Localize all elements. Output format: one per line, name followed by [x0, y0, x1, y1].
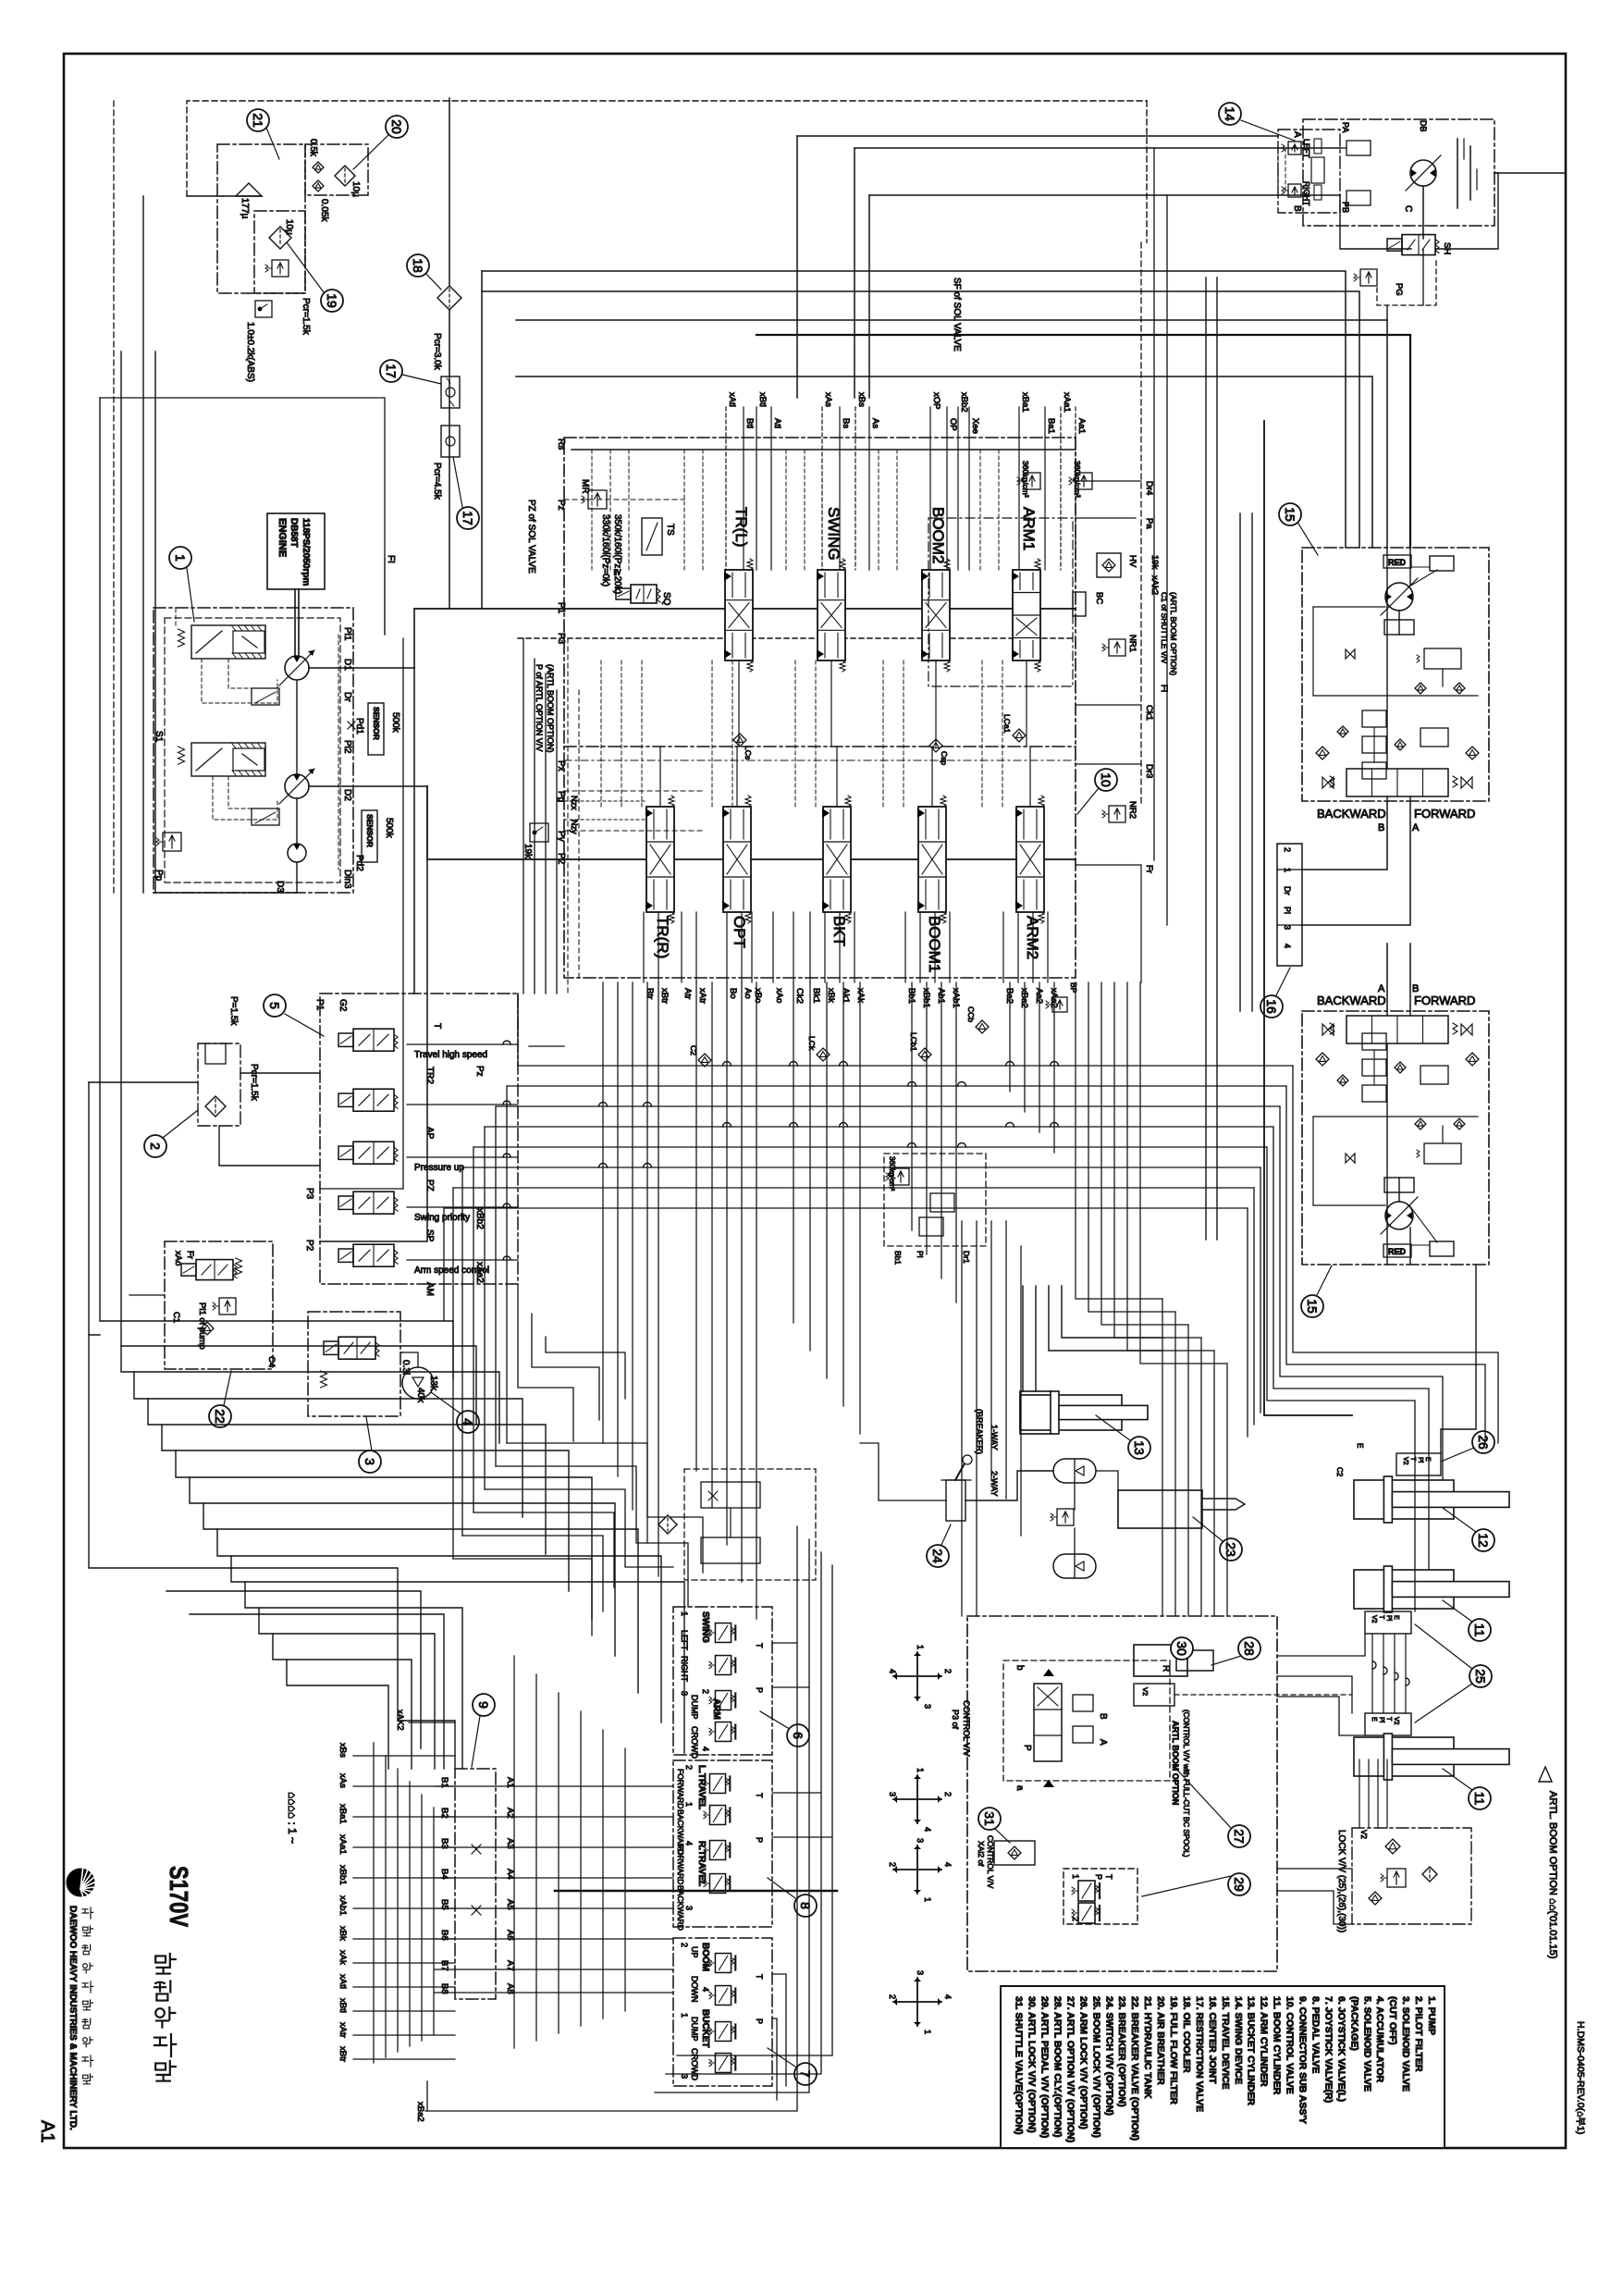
svg-text:T: T — [1104, 1874, 1113, 1880]
svg-text:V2: V2 — [1393, 1717, 1399, 1725]
breaker valve box 22 — [165, 1241, 273, 1369]
sensor 1 — [368, 703, 384, 755]
svg-text:6. JOYSTICK VALVE(L): 6. JOYSTICK VALVE(L) — [1335, 1996, 1346, 2102]
balloon 13 — [1128, 1437, 1150, 1459]
balloon 3 — [359, 1450, 381, 1473]
svg-text:ARM: ARM — [711, 1698, 721, 1720]
svg-text:xBa1: xBa1 — [338, 1804, 348, 1824]
svg-text:P of ARTL OPTION V/V: P of ARTL OPTION V/V — [535, 664, 544, 751]
svg-text:B: B — [1412, 983, 1419, 994]
wire P1 supply left — [413, 609, 415, 668]
balloon 2 — [144, 1135, 166, 1157]
svg-text:21: 21 — [251, 113, 265, 128]
svg-text:xAa1: xAa1 — [338, 1834, 348, 1855]
CV arm1 inner box — [928, 518, 1073, 686]
svg-text:DUMP: DUMP — [690, 2017, 699, 2042]
svg-text:28. ARTL BOOM CLY.(OPTION): 28. ARTL BOOM CLY.(OPTION) — [1051, 1996, 1063, 2137]
LS check LCk — [817, 1048, 830, 1061]
svg-text:2: 2 — [680, 1943, 689, 1947]
svg-text:Bo: Bo — [728, 988, 738, 999]
svg-text:4: 4 — [701, 1987, 710, 1992]
wire travel A B drops — [1386, 305, 1388, 320]
balloon 21 — [247, 109, 269, 131]
svg-text:BP: BP — [1069, 982, 1078, 994]
svg-text:BACKWARD: BACKWARD — [1317, 994, 1386, 1007]
svg-text:11: 11 — [1472, 1623, 1487, 1637]
svg-text:2: 2 — [943, 1792, 953, 1796]
spool ARM2 — [1016, 807, 1044, 912]
svg-text:2: 2 — [943, 1669, 953, 1673]
rail P2 — [427, 858, 1076, 860]
joystick box 6 — [673, 1607, 772, 1755]
wire lock vv risers — [1359, 1759, 1360, 1828]
svg-text:XAi2 of: XAi2 of — [977, 1841, 986, 1867]
svg-text:SENSOR: SENSOR — [372, 707, 381, 740]
svg-text:360kg/cm²: 360kg/cm² — [1021, 461, 1030, 498]
boom cylinder 11a — [1354, 1570, 1454, 1609]
svg-text:8: 8 — [798, 1902, 813, 1909]
NR2 relief — [1102, 806, 1125, 822]
LS check Csp — [929, 739, 942, 752]
svg-text:18: 18 — [411, 258, 425, 273]
check valve 0.05k — [313, 180, 324, 191]
pump 2 rear — [285, 774, 309, 798]
svg-text:2: 2 — [888, 1994, 897, 1999]
shuttle 31 — [994, 1841, 1035, 1865]
svg-text:Bs: Bs — [841, 418, 851, 428]
svg-text:Pi: Pi — [916, 1251, 925, 1258]
svg-text:P1: P1 — [314, 999, 325, 1011]
wire right verticals long — [1076, 982, 1162, 1299]
TS valve — [642, 518, 662, 555]
svg-text:13: 13 — [1132, 1440, 1147, 1455]
parts list text — [1014, 1996, 1437, 2142]
svg-text:DOWN: DOWN — [690, 1976, 699, 2003]
svg-text:2: 2 — [701, 1689, 710, 1694]
wire artl box bottom to lockvv — [1277, 1868, 1352, 1870]
LS check CCb — [976, 1020, 989, 1033]
svg-text:b: b — [1014, 1665, 1025, 1671]
svg-text:E: E — [1393, 1615, 1399, 1620]
regulator solenoid 2 — [252, 809, 279, 825]
svg-text:xBs: xBs — [338, 1743, 348, 1758]
svg-text:P: P — [1094, 1874, 1103, 1880]
svg-text:B: B — [1292, 205, 1302, 212]
balloon 4 — [457, 1411, 479, 1433]
oil cooler 18 — [437, 286, 461, 310]
svg-text:Ba1: Ba1 — [1046, 418, 1056, 434]
svg-text:3: 3 — [916, 1838, 925, 1843]
pump assembly box 1 — [154, 608, 353, 893]
pump 1 front — [285, 656, 309, 680]
svg-text:LCk: LCk — [807, 1036, 817, 1051]
svg-text:1: 1 — [923, 2030, 932, 2034]
accumulator 4 — [402, 1367, 434, 1399]
balloon 22 — [209, 1405, 231, 1427]
svg-text:xAb1: xAb1 — [338, 1895, 348, 1916]
svg-text:(CUT OFF): (CUT OFF) — [1387, 1996, 1398, 2045]
wire motorB feeds — [1302, 801, 1387, 870]
wire lower left staircase — [121, 1346, 499, 1443]
svg-text:19. FULL FLOW FILTER: 19. FULL FLOW FILTER — [1168, 1996, 1179, 2105]
svg-text:8. PEDAL VALVE: 8. PEDAL VALVE — [1309, 1996, 1321, 2073]
travel relief PG — [1354, 269, 1377, 286]
svg-text:T: T — [755, 1643, 764, 1648]
balloon 20 — [386, 116, 408, 138]
svg-text:Swing priority: Swing priority — [414, 1213, 470, 1223]
LS check LCa1 — [1013, 729, 1026, 742]
svg-text:3: 3 — [680, 2074, 689, 2079]
solenoid valve 4 — [338, 1196, 353, 1209]
svg-text:A: A — [1292, 131, 1302, 138]
wire solenoid block to CV extra — [567, 638, 569, 994]
wire top right edge pair — [1494, 172, 1566, 174]
svg-text:xBa1: xBa1 — [1020, 392, 1030, 413]
svg-text:14: 14 — [1223, 106, 1237, 121]
rail P3 — [518, 637, 1076, 639]
spool SWING — [818, 570, 845, 660]
balloon 6 — [787, 1724, 809, 1747]
wire verticals boom to artl — [961, 1221, 963, 1616]
svg-text:SP: SP — [424, 1229, 435, 1242]
wire bundle below CV boom — [911, 982, 913, 1230]
svg-text:4: 4 — [701, 1747, 710, 1751]
wire connector verticals — [373, 1743, 375, 2063]
wire left stair to connector — [89, 1335, 455, 1769]
travel relief pair — [1282, 142, 1301, 154]
svg-text:12: 12 — [1476, 1533, 1491, 1548]
svg-text:DAEWOO HEAVY INDUSTRIES & MACH: DAEWOO HEAVY INDUSTRIES & MACHINERY LTD. — [68, 1906, 78, 2130]
svg-text:LCb1: LCb1 — [909, 1032, 918, 1052]
breaker 23 — [1118, 1490, 1202, 1528]
svg-text:CROWD: CROWD — [690, 1726, 699, 1759]
svg-text:20. AIR BREATHER: 20. AIR BREATHER — [1155, 1996, 1166, 2085]
svg-text:5: 5 — [267, 1002, 282, 1009]
svg-text:7. JOYSTICK VALVE(R): 7. JOYSTICK VALVE(R) — [1322, 1996, 1334, 2103]
pilot relief valve — [156, 833, 181, 851]
wire lock to cylinders wavy — [1371, 1634, 1373, 1713]
svg-text:16. CENTER JOINT: 16. CENTER JOINT — [1207, 1996, 1218, 2084]
balloon 28 — [1238, 1637, 1260, 1660]
balloon 24 — [927, 1545, 949, 1567]
travel motor — [1410, 160, 1436, 186]
balloon 16 — [1260, 995, 1283, 1018]
solenoid valve 2 — [338, 1093, 353, 1106]
svg-text:NR1: NR1 — [1127, 635, 1137, 652]
svg-text:C2: C2 — [1335, 1467, 1344, 1477]
solenoid valve 1 — [338, 1033, 353, 1046]
svg-text:Atr: Atr — [682, 988, 693, 999]
connector 9 box — [455, 1769, 496, 1999]
hydraulic tank box 21 — [217, 144, 305, 293]
svg-text:CCb: CCb — [966, 1006, 976, 1022]
wire connector left labels — [409, 1722, 455, 1723]
svg-text:2: 2 — [888, 1862, 897, 1867]
svg-text:Pd2: Pd2 — [354, 855, 364, 871]
solenoid valve 5 — [338, 1249, 353, 1262]
svg-text:SF of SOL VALVE: SF of SOL VALVE — [952, 278, 962, 352]
svg-text:H.DMS-0405-REV.0(⌂부1): H.DMS-0405-REV.0(⌂부1) — [1575, 2021, 1586, 2134]
wire lower left staircase extra — [231, 1556, 684, 1753]
relief 360kg arm1b — [1069, 473, 1092, 489]
svg-text:xBa2: xBa2 — [415, 2102, 425, 2122]
boom lock valve 25a — [1365, 1611, 1411, 1634]
restriction valve 17b — [441, 426, 460, 457]
joystick cross 3 — [893, 1845, 941, 1894]
svg-text:500k: 500k — [384, 818, 394, 839]
balloon 9 — [473, 1694, 495, 1716]
svg-text:Pi: Pi — [1385, 1615, 1392, 1622]
svg-text:FORWARD: FORWARD — [1414, 994, 1475, 1007]
relief BP — [1046, 997, 1067, 1012]
svg-text:AP: AP — [424, 1127, 435, 1140]
svg-text:xBb2: xBb2 — [474, 1208, 485, 1229]
svg-text:LCs: LCs — [744, 746, 753, 759]
pump internal pilot dashes — [202, 659, 277, 703]
pump outlet wires — [309, 667, 414, 669]
engine box — [267, 513, 325, 589]
travel shuttle valve SH — [1387, 239, 1402, 251]
svg-text:27. ARTL OPTION V/V (OPTION): 27. ARTL OPTION V/V (OPTION) — [1064, 1996, 1076, 2142]
wire top right runs — [797, 135, 1278, 137]
svg-text:E: E — [1424, 1457, 1431, 1462]
svg-text:LCa1: LCa1 — [1002, 714, 1012, 734]
svg-text:BUCKET: BUCKET — [700, 2009, 710, 2048]
svg-text:CROWD: CROWD — [690, 2048, 699, 2080]
LS check C2 — [698, 1054, 711, 1067]
svg-text:15: 15 — [1283, 507, 1297, 522]
bypass relief 19 — [265, 260, 289, 277]
svg-text:B: B — [1098, 1713, 1108, 1720]
svg-text:(ARTL BOOM OPTION): (ARTL BOOM OPTION) — [1169, 592, 1178, 675]
svg-text:P3 of: P3 of — [951, 1710, 960, 1730]
svg-text:V2: V2 — [1141, 1687, 1150, 1696]
breaker relief — [213, 1298, 236, 1315]
rail P1 — [414, 608, 1076, 610]
wire left margin verticals — [113, 101, 115, 893]
svg-text:10. CONTROL VALVE: 10. CONTROL VALVE — [1285, 1996, 1296, 2094]
svg-text:1.0±0.2k(ABS): 1.0±0.2k(ABS) — [245, 322, 255, 382]
svg-text:15: 15 — [1305, 1299, 1320, 1314]
svg-text:ENGINE: ENGINE — [277, 518, 288, 557]
bucket cylinder 13 — [1020, 1391, 1051, 1434]
svg-text:xBk: xBk — [826, 988, 836, 1003]
solenoid block 5 box — [320, 994, 518, 1284]
wire top dashed return — [187, 101, 1147, 196]
svg-text:AM: AM — [424, 1282, 435, 1296]
svg-text:CONTROL V/V: CONTROL V/V — [986, 1835, 995, 1889]
svg-text:1: 1 — [684, 1802, 694, 1807]
svg-text:13k: 13k — [428, 1376, 438, 1391]
travel brake valve — [1346, 141, 1371, 155]
wire mid horizontal drops right — [1293, 1066, 1498, 1443]
svg-text:9. CONNECTOR SUB ASS'Y: 9. CONNECTOR SUB ASS'Y — [1297, 1996, 1309, 2124]
svg-text:Pi: Pi — [1283, 907, 1292, 914]
svg-text:Btl: Btl — [744, 418, 755, 428]
svg-text:118PS/2050rpm: 118PS/2050rpm — [301, 518, 311, 586]
svg-text:26: 26 — [1476, 1435, 1491, 1450]
svg-text:TR(R): TR(R) — [654, 916, 671, 958]
svg-text:2: 2 — [148, 1142, 163, 1150]
wire cylinder13 bundle — [1022, 1286, 1024, 1391]
wire CV right internals — [1076, 480, 1141, 482]
artl boom cylinder 28 — [1134, 1645, 1187, 1676]
svg-text:3: 3 — [923, 1704, 932, 1709]
wire right column pair — [1205, 278, 1207, 1240]
svg-text:P: P — [1022, 1745, 1032, 1751]
svg-text:Pcr=1.5k: Pcr=1.5k — [249, 1064, 259, 1102]
svg-text:S170V: S170V — [165, 1866, 193, 1927]
pilot filter 2 — [198, 1043, 240, 1126]
spool OPT — [723, 807, 751, 912]
boom lock valve 25b — [1365, 1713, 1411, 1735]
svg-text:xBs: xBs — [856, 392, 867, 407]
gear pump — [288, 844, 306, 862]
svg-text:R: R — [1161, 1665, 1171, 1672]
balloon 11b — [1469, 1787, 1491, 1809]
travel device wires — [1340, 147, 1346, 149]
travel device box 14 — [1303, 119, 1494, 226]
svg-text:30: 30 — [1174, 1641, 1189, 1656]
joystick cross 2 — [893, 1775, 941, 1823]
svg-text:(CONTROL V/V with FULL-CUT BC: (CONTROL V/V with FULL-CUT BC SPOOL) — [1182, 1710, 1190, 1858]
solenoid valve 3 — [338, 1146, 353, 1159]
svg-text:PA: PA — [1341, 122, 1350, 132]
balloon 30 — [1171, 1637, 1193, 1660]
svg-text:11. BOOM CYLINDER: 11. BOOM CYLINDER — [1272, 1996, 1283, 2095]
svg-text:xAtr: xAtr — [697, 988, 707, 1004]
pedal valve 24 — [946, 1480, 965, 1521]
svg-text:DB58T: DB58T — [289, 518, 299, 548]
svg-text:28: 28 — [1242, 1641, 1257, 1656]
balloon 26 — [1472, 1431, 1494, 1453]
svg-text:17: 17 — [461, 511, 475, 525]
wire cooler line — [449, 98, 450, 286]
svg-text:13. BUCKET CYLINDER: 13. BUCKET CYLINDER — [1246, 1996, 1257, 2105]
svg-text:Din3: Din3 — [342, 870, 352, 889]
wire left tank verticals — [154, 352, 156, 893]
wire bottom horiz thick — [555, 1890, 837, 1893]
artl boom option box — [967, 1616, 1277, 1971]
svg-text:FORWARD: FORWARD — [676, 1769, 685, 1808]
svg-text:1. PUMP: 1. PUMP — [1426, 1996, 1437, 2035]
svg-text:Btr: Btr — [645, 988, 655, 999]
parts list box — [1001, 1986, 1445, 2148]
travel motor box 15 upper — [1302, 548, 1489, 801]
svg-text:ARTL. BOOM OPTION ⌂⌂('01.01.15: ARTL. BOOM OPTION ⌂⌂('01.01.15) — [1547, 1791, 1558, 1958]
svg-text:PG: PG — [1394, 283, 1404, 296]
svg-text:2: 2 — [1071, 1917, 1080, 1921]
NR1 relief — [1102, 639, 1125, 656]
port wires top — [725, 407, 727, 570]
Daewoo logo — [67, 1869, 94, 1896]
spool BOOM1 — [918, 807, 946, 912]
svg-text:Csp: Csp — [940, 751, 949, 765]
svg-text:BOOM: BOOM — [700, 1943, 710, 1971]
svg-text:xAtr: xAtr — [338, 2022, 348, 2038]
svg-text:Pi1: Pi1 — [342, 627, 352, 641]
svg-text:xBtr: xBtr — [338, 2046, 348, 2062]
svg-text:Pi: Pi — [1417, 1457, 1423, 1463]
wire solenoid block to CV — [517, 994, 519, 1036]
restriction valve 17a — [441, 376, 460, 408]
breaker relief — [1051, 1509, 1074, 1525]
wire bundle below CV mid — [695, 982, 697, 1471]
svg-text:29: 29 — [1232, 1877, 1247, 1892]
svg-text:Bb1: Bb1 — [893, 1251, 903, 1265]
joystick cross 4 — [893, 1978, 941, 2026]
svg-text:22: 22 — [213, 1409, 227, 1424]
svg-text:SQ: SQ — [661, 592, 671, 606]
svg-text:27: 27 — [1232, 1829, 1247, 1844]
balloon 11a — [1469, 1619, 1491, 1641]
svg-text:19: 19 — [325, 293, 339, 308]
svg-text:LOCK V/V (25),(26),(30)): LOCK V/V (25),(26),(30)) — [1336, 1830, 1346, 1932]
svg-text:18. OIL COOLER: 18. OIL COOLER — [1181, 1996, 1192, 2073]
travel gear — [1457, 139, 1458, 208]
svg-text:DUMP: DUMP — [690, 1695, 699, 1720]
balloon 17b — [457, 507, 479, 529]
lock valve 30 block — [1134, 1684, 1174, 1706]
svg-text:xAs: xAs — [338, 1773, 348, 1788]
arm cylinder 12 — [1354, 1480, 1454, 1519]
svg-text:xBk: xBk — [338, 1926, 348, 1941]
joystick cross 1 — [893, 1652, 941, 1700]
svg-text:D1: D1 — [342, 659, 352, 671]
lock vv box — [1352, 1828, 1471, 1924]
svg-text:3: 3 — [1283, 925, 1292, 930]
relief 360kg arm1 — [1017, 473, 1040, 489]
svg-text:Pz: Pz — [474, 1066, 485, 1077]
svg-text:1: 1 — [916, 1768, 925, 1772]
svg-text:360kg/cm²: 360kg/cm² — [1073, 461, 1082, 498]
svg-text:Pa: Pa — [1144, 518, 1154, 529]
svg-text:a: a — [1014, 1785, 1025, 1791]
wire CV pilot verticals — [591, 450, 593, 570]
svg-text:OP: OP — [948, 418, 958, 431]
svg-text:T: T — [1385, 1717, 1392, 1722]
svg-text:Pressure up: Pressure up — [414, 1163, 464, 1173]
svg-text:Dr1: Dr1 — [962, 1251, 971, 1264]
svg-text:Ao: Ao — [743, 988, 753, 999]
svg-text:UP: UP — [690, 1946, 699, 1958]
svg-text:BOOM2: BOOM2 — [929, 507, 947, 563]
balloon 25 — [1469, 1665, 1492, 1687]
svg-text:xAtl: xAtl — [338, 1974, 348, 1989]
svg-text:A: A — [1098, 1739, 1108, 1746]
wire mid horizontal drops left — [517, 994, 519, 1066]
svg-text:14. SWING DEVICE: 14. SWING DEVICE — [1233, 1996, 1244, 2084]
spool ARM1 — [1013, 570, 1040, 660]
svg-text:P=1.5k: P=1.5k — [228, 996, 239, 1026]
svg-text:xAtl: xAtl — [727, 392, 737, 407]
revision note ARTL BOOM OPTION — [1539, 1767, 1552, 1782]
svg-text:24. SWITCH V/V (OPTION): 24. SWITCH V/V (OPTION) — [1103, 1996, 1114, 2116]
arm cylinder lock 26 — [1396, 1453, 1441, 1475]
balloon 8 — [794, 1895, 817, 1917]
regulator 1 — [191, 625, 265, 659]
wire tank outlet — [187, 195, 223, 197]
svg-text:4. ACCUMULATOR: 4. ACCUMULATOR — [1374, 1996, 1385, 2083]
svg-text:D2: D2 — [342, 789, 352, 801]
wire crossing bumps — [723, 1062, 732, 1067]
svg-text:C4: C4 — [266, 1356, 277, 1367]
svg-text:Dr4: Dr4 — [1144, 481, 1154, 495]
svg-text:xBtl: xBtl — [338, 1998, 348, 2013]
svg-text:22. BREAKER VALVE (OPTION): 22. BREAKER VALVE (OPTION) — [1129, 1996, 1140, 2141]
svg-text:Pi2: Pi2 — [342, 740, 352, 754]
svg-text:xAa1: xAa1 — [1062, 392, 1072, 413]
